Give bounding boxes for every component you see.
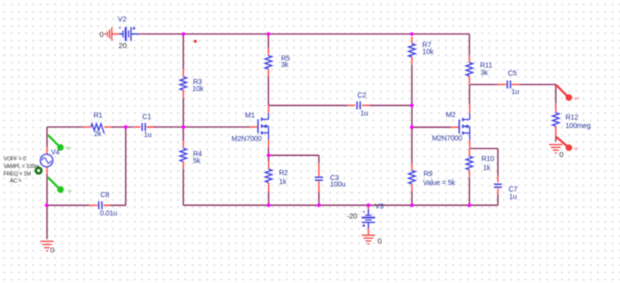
svg-text:3k: 3k: [281, 60, 289, 69]
svg-text:100meg: 100meg: [565, 121, 590, 130]
svg-text:R2: R2: [279, 168, 288, 177]
svg-text:0: 0: [100, 30, 104, 39]
svg-text:R9: R9: [424, 169, 433, 178]
svg-text:C2: C2: [357, 90, 366, 99]
svg-text:0: 0: [378, 237, 382, 246]
svg-text:FREQ = 1M: FREQ = 1M: [4, 171, 32, 177]
svg-text:C5: C5: [508, 68, 517, 77]
svg-text:0: 0: [50, 245, 54, 254]
svg-text:10k: 10k: [422, 47, 434, 56]
svg-text:M1: M1: [245, 111, 255, 120]
svg-text:0: 0: [559, 150, 563, 159]
svg-text:V-: V-: [68, 189, 73, 194]
svg-text:C8: C8: [100, 190, 109, 199]
svg-text:V2: V2: [118, 15, 127, 24]
svg-text:V4: V4: [51, 148, 60, 157]
svg-text:R1: R1: [94, 111, 103, 120]
svg-text:V+: V+: [574, 96, 580, 101]
svg-text:R10: R10: [481, 154, 494, 163]
svg-text:AC =: AC =: [10, 179, 22, 185]
svg-text:1u: 1u: [511, 87, 519, 96]
svg-text:10k: 10k: [192, 84, 204, 93]
svg-text:1u: 1u: [360, 109, 368, 118]
svg-text:20: 20: [119, 41, 127, 50]
svg-text:1u: 1u: [509, 192, 517, 201]
svg-text:5k: 5k: [193, 156, 201, 165]
svg-text:2k: 2k: [94, 129, 102, 138]
svg-text:V+: V+: [66, 146, 72, 151]
svg-text:C1: C1: [142, 112, 151, 121]
svg-text:M2N7000: M2N7000: [232, 134, 262, 143]
svg-text:M2: M2: [446, 110, 456, 119]
svg-text:VAMPL = 100m: VAMPL = 100m: [4, 164, 40, 170]
svg-text:0.01u: 0.01u: [100, 209, 117, 218]
svg-text:1k: 1k: [483, 163, 491, 172]
svg-text:V-: V-: [574, 146, 579, 151]
svg-text:Value = 5k: Value = 5k: [423, 178, 456, 187]
svg-text:-20: -20: [347, 212, 358, 221]
svg-text:1u: 1u: [144, 130, 152, 139]
svg-text:V3: V3: [375, 202, 384, 211]
svg-text:1k: 1k: [279, 177, 287, 186]
svg-text:M2N7000: M2N7000: [432, 134, 462, 143]
svg-text:3k: 3k: [481, 68, 489, 77]
svg-text:100u: 100u: [330, 180, 346, 189]
svg-text:VOFF = 0: VOFF = 0: [4, 156, 26, 162]
